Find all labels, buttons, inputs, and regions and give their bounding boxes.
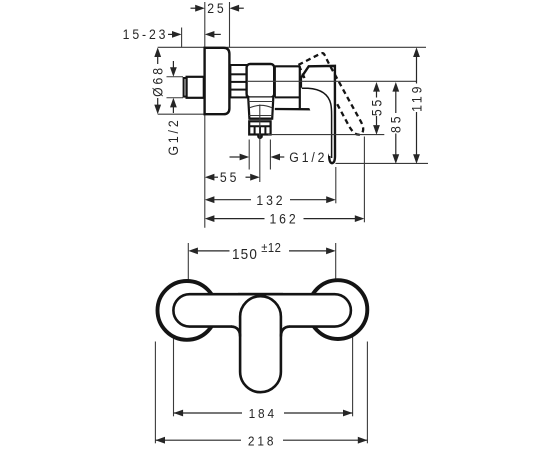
handle capsule: [240, 296, 281, 392]
union nipple thread: [184, 78, 187, 97]
dimension 218: [155, 434, 367, 449]
extension lines: 150 dim: [187, 243, 189, 293]
svg-text:15-23: 15-23: [123, 27, 169, 43]
body top line over capsule: [238, 293, 283, 296]
mixer body bar: [173, 294, 351, 326]
svg-text:25: 25: [207, 0, 226, 16]
svg-text:55: 55: [369, 97, 385, 116]
outlet thread G1/2: [249, 121, 270, 139]
svg-text:Ø68: Ø68: [150, 65, 166, 97]
left escutcheon circle: [158, 281, 217, 340]
dimension 25 (top): [191, 0, 244, 16]
extension line: dashed-handle tip level y=134.6: [268, 134, 384, 136]
ribbed nut: [230, 65, 246, 97]
dimension 85 (right): [388, 82, 404, 164]
extension line: handle bottom y=163.4: [336, 162, 429, 164]
right escutcheon circle: [309, 280, 368, 339]
extension line: 162 right: [363, 137, 365, 223]
cartridge housing: [275, 66, 300, 109]
dimension 15-23: [123, 27, 221, 48]
extension line: escutcheon front: [229, 2, 231, 47]
fillet left: [231, 327, 240, 337]
dimension 55 (bottom, wall to outlet): [205, 169, 260, 185]
outlet stub: [257, 135, 263, 139]
svg-text:218: 218: [248, 434, 276, 449]
dimension 55 (right): [369, 82, 385, 135]
svg-text:±12: ±12: [261, 240, 281, 255]
dimension 150±12: [188, 240, 335, 263]
svg-text:G1/2: G1/2: [289, 149, 327, 165]
svg-text:184: 184: [249, 407, 277, 422]
dimension 119 (right): [409, 47, 425, 164]
handle lever (solid, closed position): [301, 66, 335, 163]
dimension 162: [205, 211, 365, 227]
handle lever (dashed, open position): [298, 53, 363, 135]
svg-text:85: 85: [388, 114, 404, 133]
svg-text:150: 150: [232, 246, 258, 263]
dimension G1/2 (bottom outlet): [230, 140, 328, 170]
extension line: wall face: [204, 2, 206, 228]
escutcheon: [205, 48, 230, 114]
extension line: top level y=47.35: [158, 46, 426, 48]
extension line: escutcheon bottom: [158, 113, 205, 115]
svg-text:G1/2: G1/2: [166, 117, 182, 155]
extension lines: bottom dims: [154, 342, 156, 444]
svg-text:132: 132: [256, 192, 285, 208]
valve body: [247, 64, 275, 98]
dimension 132: [205, 192, 336, 208]
extension line: pivot axis y=81.3: [248, 80, 417, 82]
union hex: [187, 77, 204, 98]
body bottom line erasers at fillets: [232, 325, 240, 328]
outlet center line: [259, 105, 261, 183]
fillet right: [281, 327, 290, 337]
dimension 184: [174, 407, 353, 422]
outlet cone: [248, 98, 273, 119]
svg-text:55: 55: [220, 169, 239, 185]
handle underside: [275, 109, 329, 156]
svg-text:119: 119: [409, 84, 425, 112]
dimension Ø68 (left vertical): [150, 47, 166, 114]
extension line: 132 right: [335, 167, 337, 203]
svg-text:162: 162: [269, 211, 298, 227]
dimension G1/2 (left, union thread): [166, 61, 183, 156]
